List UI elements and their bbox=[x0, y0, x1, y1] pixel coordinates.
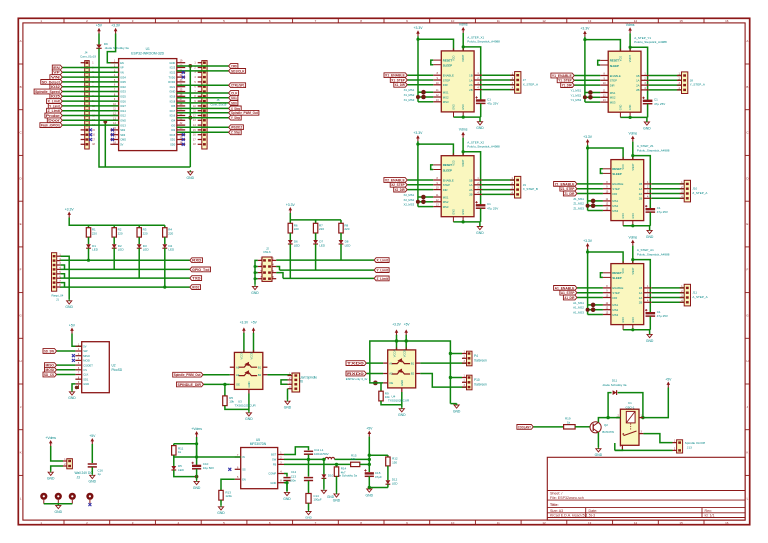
wire to C10 bbox=[196, 444, 198, 466]
svg-text:Z1_DIR: Z1_DIR bbox=[564, 192, 574, 196]
wire +3.3V rail bbox=[290, 213, 341, 220]
svg-text:15: 15 bbox=[679, 19, 683, 23]
svg-text:SW: SW bbox=[272, 458, 277, 462]
wire +3.3V to VDD X1 bbox=[418, 36, 454, 51]
svg-text:IN: IN bbox=[242, 455, 245, 459]
diode D9 bbox=[96, 45, 101, 49]
svg-text:MS1: MS1 bbox=[612, 199, 618, 203]
resistor R11 1k bbox=[172, 444, 176, 458]
svg-text:CMD: CMD bbox=[120, 138, 126, 142]
svg-text:D11: D11 bbox=[612, 379, 618, 383]
svg-text:Vdms: Vdms bbox=[628, 235, 637, 239]
capacitor C14 electrolytic bbox=[306, 494, 311, 504]
no-connect bbox=[228, 468, 231, 471]
no-connect bbox=[182, 133, 185, 136]
resistor R6 220 bbox=[288, 221, 292, 235]
global label Y1_DIR bbox=[561, 83, 575, 88]
wire L1 to output node bbox=[335, 458, 370, 460]
svg-text:GND: GND bbox=[632, 213, 635, 219]
wire GND bus bbox=[255, 260, 258, 284]
svg-text:SD1: SD1 bbox=[170, 138, 176, 142]
svg-text:X1_MS3: X1_MS3 bbox=[404, 98, 415, 102]
junction bbox=[631, 258, 634, 261]
global label Door bbox=[47, 118, 62, 123]
wire +5V to D9 bbox=[98, 34, 100, 45]
global label CLK bbox=[229, 91, 239, 96]
relay K1 body bbox=[620, 409, 639, 445]
wire Vdms bbox=[196, 437, 198, 457]
svg-text:GND: GND bbox=[453, 104, 456, 110]
svg-text:Spindle_PWM_Out: Spindle_PWM_Out bbox=[231, 111, 259, 115]
svg-text:GND: GND bbox=[398, 413, 406, 417]
ic driver X2 body bbox=[441, 156, 474, 217]
global label GPIO_Txd bbox=[190, 267, 211, 272]
junction bbox=[606, 416, 609, 419]
power +5V arrow bbox=[404, 329, 408, 332]
svg-text:IO27: IO27 bbox=[120, 104, 126, 108]
svg-text:Vdms: Vdms bbox=[459, 23, 468, 27]
wire net SD_SW bbox=[57, 350, 76, 352]
svg-text:2A: 2A bbox=[636, 83, 640, 87]
connector J10 pins bbox=[680, 181, 689, 200]
mounting hole MK1 bbox=[40, 493, 47, 504]
svg-text:Z_Limit: Z_Limit bbox=[48, 109, 61, 113]
svg-text:Y_Limit: Y_Limit bbox=[377, 269, 389, 273]
svg-text:LED: LED bbox=[345, 243, 352, 247]
svg-text:Pololu_Stepstick_A4988: Pololu_Stepstick_A4988 bbox=[467, 145, 500, 149]
svg-text:220: 220 bbox=[319, 227, 324, 231]
wire +3.3V bbox=[243, 333, 245, 353]
ground GND bbox=[217, 505, 225, 515]
wire bbox=[479, 222, 481, 226]
svg-text:+5V: +5V bbox=[251, 320, 258, 324]
global label MISO bbox=[45, 363, 57, 368]
svg-text:+3.3V: +3.3V bbox=[286, 203, 296, 207]
global label SD_SW bbox=[43, 349, 57, 354]
svg-text:LED: LED bbox=[319, 243, 326, 247]
ground GND bbox=[366, 487, 374, 497]
resistor R9 10k bbox=[379, 389, 383, 403]
svg-text:CLK: CLK bbox=[83, 373, 88, 377]
global label SPINDLE_DIR bbox=[177, 382, 204, 387]
wire VMOT to cap X2 bbox=[463, 152, 481, 205]
no-connect bbox=[182, 138, 185, 141]
svg-text:Z_Step: Z_Step bbox=[231, 131, 240, 135]
power +3.3V A1 bbox=[583, 239, 593, 249]
wire +5V bbox=[405, 335, 407, 350]
power +5V bbox=[69, 323, 76, 333]
svg-text:15: 15 bbox=[679, 521, 683, 525]
svg-text:SW: SW bbox=[83, 349, 88, 353]
svg-text:GPIO_Txd: GPIO_Txd bbox=[192, 268, 209, 272]
wire bbox=[286, 481, 288, 491]
resistor R5 10k bbox=[223, 394, 227, 408]
wire 3.3V down to MS pins X1 bbox=[417, 39, 419, 102]
svg-text:+5V: +5V bbox=[404, 322, 411, 326]
wire Vdms to VMOT Z1 bbox=[632, 142, 634, 160]
junction big bbox=[588, 95, 593, 100]
wire motor phase bbox=[482, 89, 514, 91]
wire motor phase bbox=[652, 193, 685, 195]
junction bbox=[254, 265, 257, 268]
global label Y_Limit bbox=[374, 268, 389, 273]
svg-text:B: B bbox=[20, 85, 22, 89]
junction bbox=[631, 224, 634, 227]
wire net SD_Detect bbox=[62, 81, 118, 83]
led D3 bbox=[137, 244, 142, 248]
svg-text:Pololu_Stepstick_A4988: Pololu_Stepstick_A4988 bbox=[637, 252, 670, 256]
no-connect bbox=[182, 76, 185, 79]
svg-text:IO32: IO32 bbox=[120, 85, 126, 89]
ground GND bbox=[306, 510, 311, 515]
svg-text:RXD0: RXD0 bbox=[168, 80, 175, 84]
svg-text:MOSI: MOSI bbox=[83, 359, 90, 363]
ground GND X1 bbox=[476, 120, 484, 130]
wire bbox=[340, 233, 342, 240]
svg-text:TXD0: TXD0 bbox=[347, 362, 364, 366]
wire to R9 bbox=[380, 383, 382, 391]
svg-text:COOLANT: COOLANT bbox=[518, 425, 532, 429]
junction bbox=[462, 150, 465, 153]
ground GND bbox=[55, 504, 63, 514]
wire bbox=[88, 225, 90, 228]
resistor R7 220 bbox=[313, 221, 317, 235]
connector J10 body bbox=[684, 180, 690, 202]
svg-text:GND: GND bbox=[305, 516, 311, 520]
wire NO contact bbox=[643, 434, 672, 443]
svg-text:H: H bbox=[746, 359, 748, 363]
svg-text:MS2: MS2 bbox=[443, 200, 449, 204]
svg-text:EN: EN bbox=[242, 477, 246, 481]
svg-text:GND: GND bbox=[476, 126, 484, 130]
svg-text:+3.3V: +3.3V bbox=[392, 322, 401, 326]
wire motor phase bbox=[482, 84, 514, 86]
svg-text:DIR: DIR bbox=[443, 188, 448, 192]
svg-text:IO4: IO4 bbox=[171, 119, 176, 123]
ground GND Z1 bbox=[646, 229, 654, 239]
wire X endstop out bbox=[420, 362, 466, 364]
svg-text:RESET: RESET bbox=[443, 163, 453, 167]
capacitor C A1 47u bbox=[645, 309, 655, 316]
svg-text:1A: 1A bbox=[469, 78, 473, 82]
wire GND branch bbox=[104, 122, 106, 167]
svg-text:U1: U1 bbox=[146, 47, 150, 51]
wire +3.3V bbox=[396, 335, 398, 350]
ground GND bbox=[65, 299, 73, 309]
svg-text:11: 11 bbox=[497, 521, 500, 525]
wire net Flash_(GPIO0) bbox=[62, 124, 118, 126]
power +5V relay bbox=[665, 377, 672, 387]
wire MS bbox=[585, 101, 600, 103]
wire pin7 jog bbox=[60, 283, 64, 288]
wire pin3 jog bbox=[60, 265, 64, 269]
svg-text:GND: GND bbox=[65, 305, 73, 309]
global label X_Limit bbox=[374, 258, 389, 263]
svg-text:VMOT: VMOT bbox=[629, 55, 632, 63]
capacitor C13 100nF bbox=[304, 478, 313, 481]
svg-text:J9: J9 bbox=[523, 183, 527, 187]
wire net X_Step bbox=[177, 107, 229, 109]
ic driver A1 signal pins bbox=[603, 285, 624, 300]
power +3.3V arrow bbox=[395, 329, 399, 332]
wire motor phase bbox=[652, 287, 685, 289]
svg-text:SO1: SO1 bbox=[231, 96, 237, 100]
global label Z1_STEP bbox=[560, 186, 577, 191]
wire net TXD bbox=[60, 277, 190, 279]
global label CTRL/SP1 bbox=[229, 83, 246, 88]
svg-text:GND: GND bbox=[452, 209, 455, 215]
svg-text:MS3: MS3 bbox=[610, 100, 616, 104]
wire motor phase bbox=[482, 184, 515, 186]
svg-text:Y_Limit: Y_Limit bbox=[49, 104, 60, 108]
global label Spindle_PWM_Out bbox=[173, 372, 203, 377]
wire to R14 bbox=[336, 464, 338, 467]
svg-text:VDD: VDD bbox=[453, 55, 456, 60]
wire net EN bbox=[62, 67, 118, 69]
power +5V output bbox=[366, 426, 373, 436]
svg-text:Wall 24V DC: Wall 24V DC bbox=[75, 471, 94, 475]
wire bbox=[57, 504, 59, 505]
wire bbox=[456, 404, 458, 405]
svg-text:A1: A1 bbox=[389, 361, 393, 365]
global label X2_ENABLE bbox=[384, 178, 407, 183]
wire com contact bbox=[615, 449, 623, 450]
wire net A1_DIR bbox=[577, 297, 603, 299]
svg-text:MP2307DN: MP2307DN bbox=[250, 442, 267, 446]
wire motor phase bbox=[649, 79, 682, 81]
svg-text:GND: GND bbox=[619, 104, 622, 110]
ic driver Z1 body bbox=[611, 160, 644, 221]
svg-text:LED: LED bbox=[143, 248, 150, 252]
wire Vdms to VMOT X2 bbox=[462, 138, 464, 156]
junction bbox=[629, 116, 632, 119]
svg-text:Q2: Q2 bbox=[604, 423, 608, 427]
svg-text:RESET: RESET bbox=[612, 271, 622, 275]
svg-text:STEP: STEP bbox=[610, 79, 617, 83]
wire to R5 bbox=[224, 384, 226, 396]
svg-text:220: 220 bbox=[168, 231, 173, 235]
svg-text:IO35: IO35 bbox=[120, 80, 126, 84]
wire bbox=[340, 244, 342, 260]
svg-text:A1_MS2: A1_MS2 bbox=[573, 306, 584, 310]
mounting hole MK4 bbox=[86, 493, 93, 504]
svg-text:GND: GND bbox=[251, 291, 259, 295]
wire cap to gnd rail Y1 bbox=[647, 104, 649, 118]
svg-text:C12: C12 bbox=[291, 470, 297, 474]
svg-text:X_Limit: X_Limit bbox=[48, 100, 61, 104]
ground GND X2 bbox=[476, 225, 484, 235]
mounting hole MK3 bbox=[69, 493, 76, 504]
ic driver Z1 output pins bbox=[639, 181, 652, 201]
svg-text:1B: 1B bbox=[639, 182, 643, 186]
ic driver A1 reset sleep pins bbox=[603, 271, 622, 280]
svg-text:MS2: MS2 bbox=[612, 204, 618, 208]
wire MS bbox=[588, 314, 603, 316]
wire flyback right bbox=[618, 393, 643, 418]
svg-text:MISO: MISO bbox=[46, 364, 55, 368]
svg-text:GND: GND bbox=[270, 481, 276, 485]
svg-text:File: ESP32wcnc.sch: File: ESP32wcnc.sch bbox=[550, 496, 584, 500]
wire 3.3V down to MS pins A1 bbox=[587, 252, 589, 315]
svg-text:IO15: IO15 bbox=[170, 133, 176, 137]
junction big bbox=[588, 90, 593, 95]
svg-text:Vdms: Vdms bbox=[459, 128, 468, 132]
wire motor phase bbox=[649, 84, 682, 86]
global label WS2812 bbox=[229, 125, 244, 130]
junction bbox=[322, 458, 325, 461]
svg-text:+5V: +5V bbox=[89, 434, 96, 438]
svg-text:MS1: MS1 bbox=[443, 195, 449, 199]
ic U5 pins bbox=[235, 452, 284, 485]
svg-text:+3.3V: +3.3V bbox=[65, 207, 75, 211]
global label Y1_ENABLE bbox=[551, 73, 574, 78]
wire net MOSI bbox=[57, 369, 76, 371]
connector J6 pins bbox=[288, 373, 298, 390]
svg-text:X1_DIR: X1_DIR bbox=[395, 83, 405, 87]
wire net RXD2 bbox=[60, 286, 190, 288]
wire bbox=[255, 266, 258, 268]
no-connect bbox=[89, 138, 92, 141]
power +5V cap bbox=[89, 434, 96, 444]
connector J3 pins bbox=[63, 458, 71, 467]
wire net SO1 bbox=[177, 97, 229, 99]
svg-text:XaGreen: XaGreen bbox=[474, 382, 487, 386]
power +Vdms wall bbox=[45, 436, 56, 446]
ic driver X1 output pins bbox=[469, 72, 482, 92]
no-connect bbox=[182, 143, 185, 146]
svg-text:GND: GND bbox=[68, 396, 76, 400]
junction big bbox=[586, 204, 590, 208]
svg-text:GND: GND bbox=[476, 231, 484, 235]
svg-text:STEP: STEP bbox=[612, 291, 619, 295]
resistor R19 1k bbox=[564, 425, 576, 429]
global label Z1_DIR bbox=[563, 191, 577, 196]
svg-text:1A: 1A bbox=[636, 79, 640, 83]
svg-text:IO25: IO25 bbox=[120, 95, 126, 99]
wire jumper bbox=[598, 60, 601, 65]
svg-text:STEP: STEP bbox=[612, 187, 619, 191]
led D8 bbox=[339, 240, 344, 244]
capacitor C Y1 47u bbox=[642, 97, 652, 104]
ic driver A1 power pins bbox=[623, 261, 633, 264]
svg-text:GND: GND bbox=[646, 339, 654, 343]
junction bbox=[641, 416, 644, 419]
svg-text:IO16: IO16 bbox=[170, 114, 176, 118]
mounting hole MK2 bbox=[55, 493, 62, 504]
wire bbox=[164, 237, 166, 244]
junction bbox=[462, 220, 465, 223]
svg-text:FB: FB bbox=[273, 463, 277, 467]
svg-text:DIR: DIR bbox=[612, 192, 617, 196]
svg-text:Y1_STEP: Y1_STEP bbox=[558, 79, 572, 83]
wire net Probe bbox=[62, 115, 118, 117]
svg-text:F: F bbox=[746, 268, 748, 272]
ic driver Y1 signal pins bbox=[600, 73, 621, 88]
svg-text:XaGreen: XaGreen bbox=[474, 358, 487, 362]
connector J13 body bbox=[677, 440, 683, 453]
no-connect bbox=[89, 128, 92, 131]
junction bbox=[223, 383, 226, 386]
global label A1_STEP bbox=[560, 290, 577, 295]
svg-text:1B: 1B bbox=[636, 74, 640, 78]
connector J9 body bbox=[515, 176, 521, 198]
ic U2 PicoSD body bbox=[82, 342, 110, 393]
svg-text:13: 13 bbox=[588, 19, 592, 23]
wire net Spindle_PWM_Out bbox=[177, 112, 229, 114]
svg-text:CS/DET: CS/DET bbox=[83, 363, 93, 367]
svg-text:VDD: VDD bbox=[622, 268, 625, 273]
global label TXD bbox=[190, 276, 202, 281]
wire Vdms to VMOT A1 bbox=[632, 246, 634, 264]
ground GND bbox=[251, 285, 259, 295]
wire flyback left bbox=[608, 393, 612, 418]
wire net WS2812 bbox=[177, 126, 229, 128]
svg-text:IO2: IO2 bbox=[171, 128, 176, 132]
svg-text:LED: LED bbox=[392, 481, 398, 485]
no-connect bbox=[111, 133, 114, 136]
svg-text:GND: GND bbox=[462, 209, 465, 215]
svg-text:OE: OE bbox=[236, 383, 240, 387]
wire net MISO bbox=[57, 364, 76, 366]
svg-text:14: 14 bbox=[634, 521, 638, 525]
svg-text:Pololu_Stepstick_A4988: Pololu_Stepstick_A4988 bbox=[467, 40, 500, 44]
led D4 bbox=[162, 244, 167, 248]
power +3.3V X2 bbox=[413, 131, 423, 141]
junction big bbox=[583, 95, 587, 99]
ic driver Y1 ground pins bbox=[620, 112, 630, 117]
no-connect bbox=[72, 354, 75, 357]
wire MS bbox=[418, 201, 433, 203]
wire net IO25 bbox=[62, 95, 118, 97]
svg-text:A1_DIR: A1_DIR bbox=[564, 296, 574, 300]
wire to C13 bbox=[308, 459, 310, 476]
inductor L1 bbox=[325, 457, 334, 459]
wire net IO32 bbox=[62, 86, 118, 88]
wire +5V bbox=[253, 333, 255, 353]
wire MS bbox=[588, 309, 603, 311]
wire VMOT to cap Z1 bbox=[633, 156, 651, 209]
wire bbox=[138, 225, 140, 228]
svg-text:220: 220 bbox=[92, 231, 97, 235]
svg-text:Id: 1/1: Id: 1/1 bbox=[705, 514, 715, 518]
svg-text:GND: GND bbox=[169, 61, 175, 65]
wire bbox=[450, 403, 456, 405]
svg-text:2A: 2A bbox=[469, 83, 473, 87]
global label Y_Limit bbox=[48, 104, 62, 109]
svg-text:VP: VP bbox=[53, 71, 60, 75]
wire bbox=[315, 220, 317, 223]
wire jumper bbox=[600, 273, 603, 278]
svg-text:SD_SW: SD_SW bbox=[44, 349, 55, 353]
connector J1 pins bbox=[53, 253, 62, 288]
capacitor C12 bbox=[283, 478, 290, 481]
svg-text:2B: 2B bbox=[469, 88, 473, 92]
svg-text:220: 220 bbox=[118, 231, 123, 235]
power +Vdms input bbox=[191, 427, 202, 437]
wire +3.3V to VDD Z1 bbox=[588, 145, 624, 160]
global label SD0 bbox=[229, 101, 238, 106]
wire net X1_STEP bbox=[407, 79, 433, 81]
connector J8 pins bbox=[677, 73, 686, 92]
svg-text:U5: U5 bbox=[256, 438, 260, 442]
ic driver X2 power pins bbox=[453, 153, 463, 156]
wire net RXD0 bbox=[366, 373, 383, 375]
wire net Y_Step bbox=[177, 117, 229, 119]
svg-text:GND: GND bbox=[284, 406, 292, 410]
global label CMD bbox=[229, 64, 238, 69]
svg-text:47µ 25V: 47µ 25V bbox=[487, 102, 498, 106]
svg-text:F: F bbox=[20, 268, 22, 272]
